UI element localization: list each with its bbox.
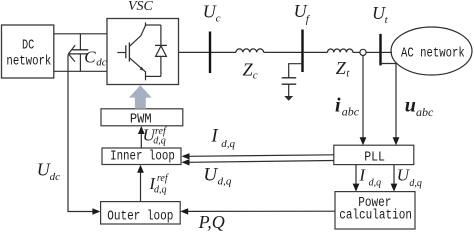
svg-text:abc: abc (416, 105, 434, 119)
svg-text:u: u (405, 94, 416, 116)
svg-text:d,q: d,q (221, 138, 235, 150)
label I_dq (middle) (210, 126, 235, 150)
Power calculation box (335, 192, 415, 229)
svg-text:ref: ref (157, 173, 169, 184)
svg-text:Inner loop: Inner loop (110, 148, 175, 164)
label U_dq_ref (143, 126, 167, 147)
wire: U_f to Z_t (303, 51, 328, 53)
wire: IGBT top to diode (146, 24, 161, 26)
svg-text:d,q: d,q (369, 177, 382, 188)
svg-text:I: I (358, 166, 366, 185)
ground arrow below filter capacitor (284, 96, 293, 101)
U_dc measurement arrow at capacitor (68, 45, 75, 62)
label U_dq (PLL output) (397, 166, 422, 189)
label I_dq_ref (148, 173, 168, 195)
PLL box (334, 145, 414, 165)
capacitor C_dc (68, 34, 106, 72)
wire: Power calculation to Outer loop (P,Q) (180, 208, 335, 214)
svg-text:c: c (253, 69, 258, 81)
label I_dq (PLL output) (358, 166, 381, 189)
AC network (ellipse) (391, 27, 472, 75)
svg-text:dc: dc (50, 171, 61, 183)
wire: U_dc sense line down to Outer loop (68, 55, 100, 215)
svg-text:dc: dc (96, 57, 107, 69)
wire: Z_t to node (353, 51, 360, 53)
wire: PLL to Inner loop upper (I_dq) (182, 153, 334, 159)
label i_abc (335, 95, 360, 119)
label U_dc (37, 160, 60, 183)
DC network box (2, 25, 54, 78)
wire: U_t bus to AC network (381, 51, 393, 53)
wire: AC main line VSC to U_c bus (179, 51, 237, 53)
svg-text:I: I (210, 126, 219, 147)
svg-text:f: f (306, 13, 311, 25)
VSC converter box U1 (107, 19, 179, 85)
wire: IGBT bottom to diode (146, 75, 161, 77)
transistor Q1 (IGBT) (117, 22, 145, 80)
label U_dq (middle) (203, 164, 231, 187)
svg-text:d,q: d,q (154, 184, 167, 195)
svg-text:Z: Z (336, 58, 347, 78)
inductor Z_t (328, 49, 353, 52)
wire: node to U_t bus (366, 51, 380, 53)
diode D1 (freewheeling) (155, 25, 167, 76)
label u_abc (405, 94, 434, 119)
svg-text:PLL: PLL (364, 149, 385, 165)
bus U_f (301, 30, 303, 73)
svg-text:VSC: VSC (128, 0, 154, 14)
node (measurement tap) (360, 49, 366, 55)
arrow: Inner loop to PWM (U_dq ref) (138, 126, 145, 148)
bus U_t (379, 34, 381, 66)
inductor Z_c (236, 49, 264, 52)
svg-text:DC: DC (22, 37, 34, 53)
arrow: Outer loop to Inner loop (I_dq ref) (137, 165, 144, 202)
svg-text:network: network (6, 53, 51, 69)
filter capacitor branch at U_f (282, 64, 303, 97)
svg-text:t: t (385, 14, 389, 26)
svg-text:c: c (216, 13, 221, 25)
svg-text:d,q: d,q (218, 176, 232, 188)
wire: PLL to Power calculation right (U_dq) (391, 165, 398, 192)
wire: Z_c to U_f bus (264, 51, 303, 53)
svg-text:AC network: AC network (401, 45, 465, 61)
wire: top DC rail (54, 33, 107, 35)
svg-text:d,q: d,q (153, 135, 166, 146)
svg-text:P,Q: P,Q (198, 212, 225, 232)
label U_c (203, 2, 221, 25)
PWM box (101, 109, 183, 127)
wire: PLL to Inner loop lower (U_dq) (182, 159, 334, 165)
bus U_c (209, 32, 211, 74)
Outer loop box (101, 202, 181, 224)
wire: bottom DC rail (54, 70, 107, 72)
gray gate-drive arrow PWM to VSC (129, 85, 152, 109)
label Z_c (243, 60, 258, 82)
svg-text:i: i (335, 95, 341, 117)
label U_t (372, 3, 389, 26)
Inner loop box (102, 148, 181, 165)
label U_f (294, 1, 311, 25)
wire: PLL to Power calculation left (I_dq) (353, 165, 360, 192)
svg-text:U: U (203, 164, 218, 185)
label Z_t (336, 58, 350, 80)
wire u_abc: U_t bus down to PLL (381, 64, 400, 146)
svg-text:abc: abc (342, 105, 360, 119)
svg-text:d,q: d,q (409, 178, 422, 189)
wire i_abc: node down to PLL (360, 56, 367, 146)
svg-text:Outer loop: Outer loop (107, 208, 173, 224)
svg-text:t: t (346, 68, 350, 80)
svg-text:calculation: calculation (339, 207, 412, 223)
svg-text:C: C (84, 47, 96, 66)
